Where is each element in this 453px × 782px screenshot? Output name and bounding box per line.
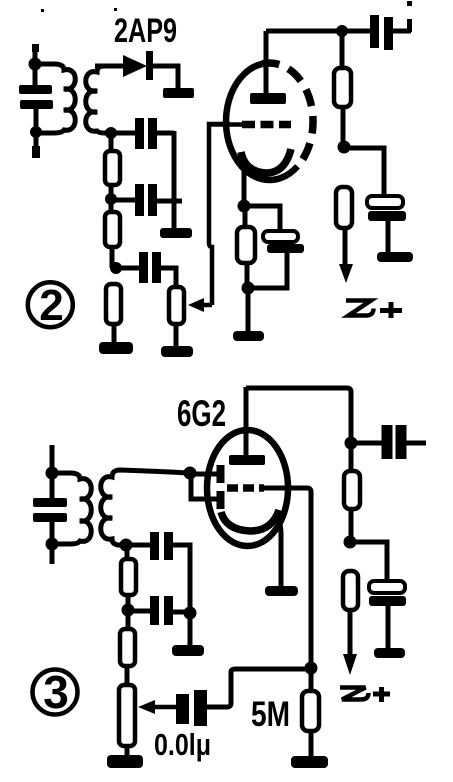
tube V1 grid (dashes): [242, 121, 291, 129]
node M1 (top rail junction): [336, 25, 348, 37]
wire grid to wiper: [209, 124, 230, 305]
tube V1 cathode lead: [242, 165, 247, 206]
ground (R11): [291, 756, 328, 768]
tube V1 envelope solid arc: [226, 64, 297, 180]
wire tank left lower: [50, 522, 55, 544]
tube V2 cathode: [221, 510, 279, 531]
capacitor C7 bottom plate: [368, 211, 406, 221]
wire K1 to C5: [244, 206, 280, 232]
resistor R8: [121, 559, 136, 595]
svg-text:2: 2: [39, 281, 63, 330]
node G3: [184, 467, 197, 480]
wire stub bottom: [50, 544, 55, 564]
arrow to B+: [339, 264, 353, 283]
node A (tank top junction): [29, 58, 42, 71]
capacitor C1 (tank, plates): [19, 85, 52, 94]
resistor R1: [105, 151, 120, 185]
tube V2 cathode lead: [279, 520, 281, 587]
wire diode out: [153, 66, 178, 89]
resistor R7: [336, 187, 352, 228]
resistor R13: [343, 571, 358, 610]
capacitor C10: [128, 609, 151, 614]
capacitor C6 (output top): [342, 29, 372, 34]
wire C7 to ground: [386, 221, 391, 252]
wire stub bottom: [34, 132, 39, 157]
node N3: [344, 536, 357, 549]
capacitor C13 bottom plate: [369, 596, 406, 606]
speck: [41, 9, 44, 12]
label B+ (乙+): [346, 301, 374, 316]
diode D1 2AP9: [123, 55, 147, 77]
capacitor C13 (filter, boat top plate): [369, 581, 405, 593]
ground (cathode V2): [265, 586, 298, 596]
wiper arrow: [202, 303, 212, 308]
capacitor C12 (output): [351, 441, 384, 446]
inductor L2 secondary: [86, 66, 122, 133]
node L1: [242, 282, 255, 295]
terminal bar (diode output): [163, 88, 194, 98]
wire E3 to ground: [188, 613, 193, 645]
svg-text:6G2: 6G2: [177, 393, 226, 434]
node B3: [46, 538, 59, 551]
tube V2 envelope: [207, 430, 288, 546]
wire to upper diode plate: [190, 472, 217, 477]
wire tank left lower: [34, 109, 39, 132]
ground (R4): [161, 346, 193, 357]
inductor L3 primary: [52, 473, 91, 544]
capacitor C9: [126, 543, 151, 548]
resistor R9: [120, 629, 135, 666]
capacitor C3: [111, 198, 136, 203]
capacitor C5 (cathode bypass, boat top plate): [263, 231, 298, 242]
potentiometer R10: [119, 685, 135, 746]
wire vertical (C2/C3 right rail): [172, 131, 177, 229]
wire to lower diode plate: [191, 474, 217, 499]
ground (R3): [99, 342, 133, 354]
node N1: [338, 141, 351, 154]
wire plate to top rail: [266, 29, 342, 34]
wire C5 bottom to node L1: [250, 253, 287, 288]
wire tank left upper: [33, 65, 38, 85]
wire C13 to ground: [386, 606, 391, 648]
capacitor C2: [111, 131, 136, 136]
label B+ (乙+) circuit 3: [340, 688, 369, 700]
resistor R11 5M: [302, 691, 319, 731]
antenna stub top (circuit 3): [50, 445, 55, 473]
node D3: [122, 604, 135, 617]
resistor R12: [344, 471, 360, 509]
wire L1 to ground: [246, 288, 251, 332]
inductor L1 primary: [35, 64, 75, 133]
node A3: [46, 467, 59, 480]
wiper arrow (circuit 3): [152, 705, 178, 710]
ground (C13): [374, 648, 405, 658]
capacitor C8 (tank plates): [33, 498, 67, 507]
svg-text:0.0lμ: 0.0lμ: [154, 727, 211, 762]
wire N1 to C7: [344, 148, 384, 197]
ground (C2/C3 rail): [160, 228, 192, 238]
resistor R2: [105, 212, 120, 247]
diode plate stub lower: [217, 491, 225, 509]
ground (C9/C10 rail): [172, 645, 204, 656]
node K1: [238, 200, 251, 213]
wire N3 to C13: [350, 542, 387, 582]
arrow to B+ (circuit 3): [343, 654, 357, 675]
resistor R3: [106, 284, 121, 324]
circled 2: [28, 282, 73, 327]
svg-text:2AP9: 2AP9: [114, 12, 177, 50]
diode plate stub upper: [217, 465, 225, 483]
node B (tank bottom junction): [30, 126, 42, 138]
potentiometer R4: [169, 287, 184, 324]
resistor R5 (cathode): [237, 227, 255, 263]
wire R13 to B+ arrow: [348, 610, 353, 656]
resistor R6: [334, 68, 351, 107]
tube V2 plate: [229, 455, 265, 465]
node M3: [345, 437, 358, 450]
tube V1 grid lead: [209, 122, 242, 127]
node F3: [305, 662, 318, 675]
ground (cathode): [233, 331, 264, 341]
wire tank left upper: [50, 473, 55, 498]
node C (secondary bottom junction): [105, 127, 117, 139]
node C3b (secondary bottom): [120, 539, 133, 552]
capacitor C4: [116, 266, 140, 271]
tube V1 plate: [250, 93, 286, 104]
wire secondary top to diode: [95, 64, 124, 69]
wire plate to top rail (circuit 3): [246, 388, 351, 443]
node E: [110, 262, 122, 274]
circled 3: [33, 670, 78, 715]
node D: [105, 193, 117, 205]
tube V1 envelope dashed arc: [262, 63, 313, 166]
capacitor C7 (filter, boat top plate): [367, 196, 403, 208]
ground (R10): [107, 755, 143, 768]
wire M1 down: [340, 31, 345, 68]
inductor L4 secondary: [101, 470, 190, 545]
speck: [114, 8, 117, 11]
svg-text:3: 3: [43, 666, 69, 718]
capacitor C11 0.01u: [176, 694, 189, 724]
wire M3 down: [349, 443, 354, 471]
node E3: [184, 607, 197, 620]
antenna stub top: [33, 46, 38, 65]
ground (C7): [377, 252, 413, 262]
tube V1 cathode: [241, 149, 291, 173]
wire R7 to B+ arrow: [343, 228, 348, 266]
tube V2 grid lead right: [262, 488, 311, 668]
tube V2 grid (dashes): [227, 484, 264, 492]
svg-text:5M: 5M: [251, 695, 290, 734]
capacitor C5 bottom plate: [267, 244, 304, 253]
speck: [407, 1, 412, 6]
